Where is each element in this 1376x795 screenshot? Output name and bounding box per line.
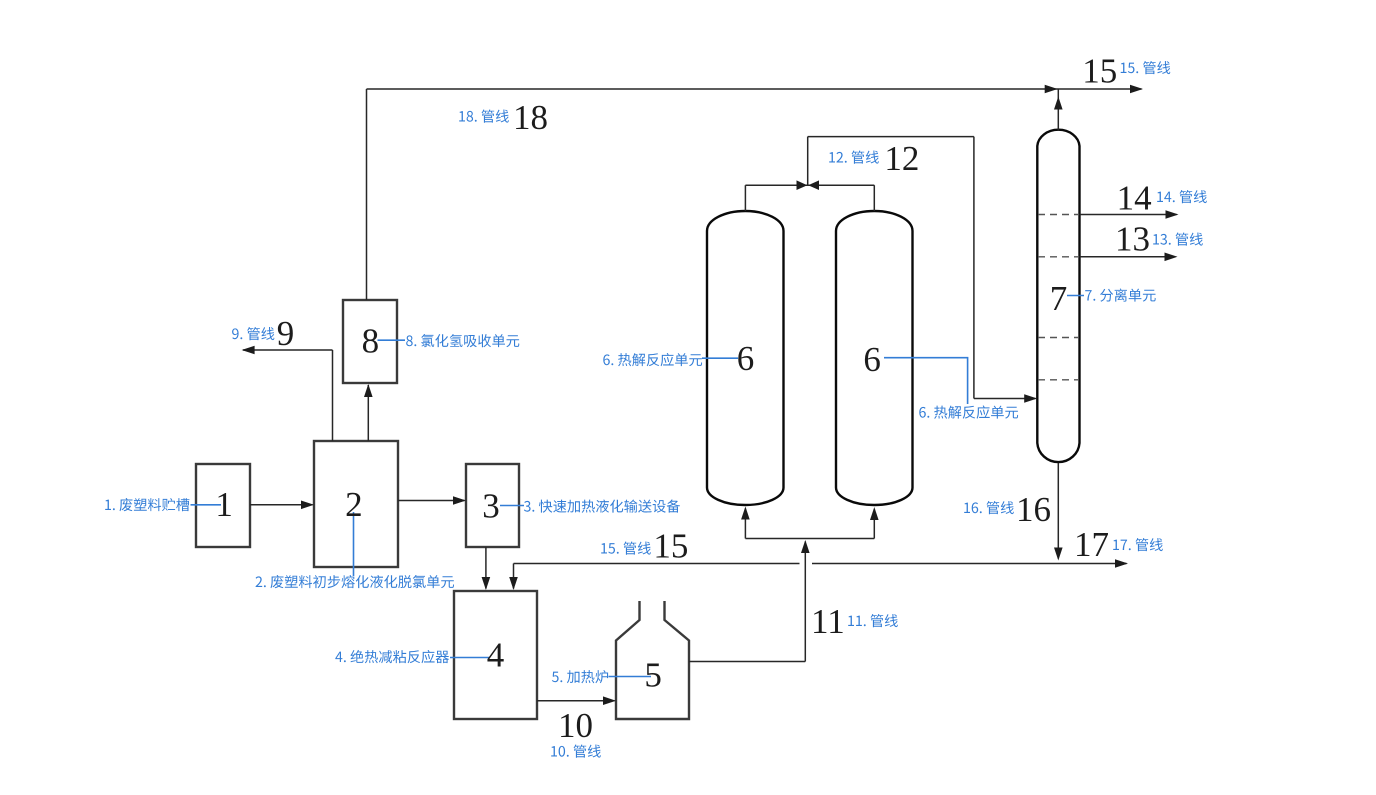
unit 6 pyrolysis column A bbox=[707, 211, 784, 505]
pipeline 11 horizontal from furnace bbox=[689, 661, 805, 663]
column feed header bbox=[745, 538, 874, 540]
pipeline 13 arrow bbox=[1165, 253, 1178, 262]
separation column internal dashed tray 2 bbox=[1038, 256, 1079, 258]
svg-text:6: 6 bbox=[737, 339, 755, 378]
svg-text:15: 15 bbox=[653, 527, 688, 566]
label: label pipeline 15 mid bbox=[601, 542, 651, 555]
pipeline unit 2 to unit 3 bbox=[398, 500, 465, 502]
column A feed riser bbox=[744, 509, 746, 539]
pipeline 12 top run bbox=[808, 136, 974, 138]
svg-text:1: 1 bbox=[215, 485, 233, 524]
label: label 7 separation unit bbox=[1085, 289, 1156, 302]
pipeline 15/17 long header left bbox=[514, 563, 800, 565]
pipeline 15 return drop to unit 4 bbox=[513, 564, 515, 589]
svg-text:3: 3 bbox=[482, 487, 500, 526]
separation column internal dashed tray 1 bbox=[1038, 214, 1079, 216]
label: label 5 heating furnace bbox=[552, 670, 608, 683]
pipeline 13 bbox=[1080, 256, 1176, 258]
svg-text:9: 9 bbox=[277, 314, 295, 353]
label: label pipeline 12 bbox=[829, 151, 879, 164]
unit 8 HCl absorption box bbox=[343, 300, 397, 383]
label: label 6 pyrolysis unit A bbox=[603, 353, 702, 366]
unit 3 inlet arrow bbox=[453, 496, 466, 505]
label: label pipeline 15 top bbox=[1121, 61, 1171, 74]
label: label pipeline 17 bbox=[1113, 538, 1163, 551]
label: label 3 transfer equipment bbox=[524, 500, 680, 513]
svg-text:12: 12 bbox=[884, 139, 919, 178]
column A inlet arrow bbox=[741, 507, 750, 520]
pipeline 10 unit 4 to furnace bbox=[537, 700, 615, 702]
svg-text:6: 6 bbox=[863, 340, 881, 379]
label: label 2 dechlorination unit bbox=[256, 575, 454, 588]
separation column side inlet arrow bbox=[1024, 394, 1037, 403]
label: label 6 pyrolysis unit B bbox=[919, 406, 1018, 419]
pipeline 12 crossover header bbox=[745, 184, 874, 186]
label: label pipeline 11 bbox=[848, 614, 898, 627]
unit 5 heating furnace outline bbox=[616, 601, 689, 719]
pipeline 9 horizontal bbox=[243, 349, 333, 351]
unit 6 pyrolysis column B bbox=[836, 211, 913, 505]
leader line unit 7 bbox=[1067, 295, 1084, 297]
pipeline 14 arrow bbox=[1166, 210, 1179, 219]
svg-text:18: 18 bbox=[513, 98, 548, 137]
svg-text:7: 7 bbox=[1050, 279, 1068, 318]
pipeline 15 outlet arrow bbox=[1130, 85, 1143, 94]
unit 3 rapid heating transfer box bbox=[466, 464, 519, 547]
label: label pipeline 10 bbox=[551, 745, 601, 758]
pipeline unit 2 to unit 8 bbox=[367, 385, 369, 441]
unit 7 separation column bbox=[1037, 130, 1079, 462]
unit 4 adiabatic visbreaking reactor box bbox=[454, 591, 537, 719]
svg-text:2: 2 bbox=[345, 485, 363, 524]
svg-text:14: 14 bbox=[1117, 179, 1152, 218]
svg-text:16: 16 bbox=[1016, 490, 1051, 529]
separation column internal dashed tray 3 bbox=[1038, 337, 1079, 339]
separation column top arrow bbox=[1054, 97, 1063, 110]
label: label 1 storage tank bbox=[105, 498, 189, 511]
pipeline 18 / 15 top header bbox=[367, 88, 1142, 90]
leader line unit 2 bbox=[353, 512, 355, 576]
pipeline 17 outlet arrow bbox=[1115, 559, 1128, 568]
leader line unit 5 bbox=[609, 676, 652, 678]
svg-text:15: 15 bbox=[1082, 52, 1117, 91]
leader line unit 8 bbox=[378, 339, 406, 341]
unit 4 inlet arrow B bbox=[509, 577, 518, 590]
pipeline 11 arrow bbox=[801, 540, 810, 553]
pipeline 16 arrow bbox=[1054, 548, 1063, 561]
unit 2 inlet arrow bbox=[301, 501, 314, 510]
pipeline 12 into separation column bbox=[974, 398, 1036, 400]
pipeline 16 from separation column bottom bbox=[1057, 463, 1059, 559]
pipeline 12 down run bbox=[973, 137, 975, 399]
pipeline 12 column B top stub bbox=[873, 185, 875, 211]
pipeline 12 column A top stub bbox=[744, 185, 746, 211]
leader line unit 3 bbox=[500, 505, 524, 507]
separation column internal dashed tray 4 bbox=[1038, 379, 1079, 381]
svg-text:4: 4 bbox=[487, 636, 505, 675]
label: label pipeline 16 bbox=[964, 501, 1014, 514]
furnace inlet arrow bbox=[603, 696, 616, 705]
svg-text:11: 11 bbox=[811, 602, 845, 641]
leader line unit 6B bbox=[884, 358, 968, 404]
pipeline 9 riser to unit 2 bbox=[332, 350, 334, 441]
svg-text:10: 10 bbox=[558, 706, 593, 745]
unit 2 melting/dechlorination box bbox=[314, 441, 398, 567]
pipeline 12 riser bbox=[807, 137, 809, 186]
column B inlet arrow bbox=[870, 507, 879, 520]
unit 8 inlet arrow bbox=[364, 384, 373, 397]
leader line unit 1 bbox=[191, 504, 222, 506]
column B feed riser bbox=[873, 509, 875, 539]
label: label pipeline 13 bbox=[1153, 233, 1203, 246]
label: label pipeline 9 bbox=[232, 327, 274, 340]
pipeline unit 3 to unit 4 bbox=[485, 547, 487, 589]
pipeline from separation column top bbox=[1057, 90, 1059, 131]
pipeline 11 riser bbox=[804, 542, 806, 662]
pipeline 12 valve bbox=[797, 180, 808, 190]
pipeline 9 arrow bbox=[242, 346, 255, 355]
unit 4 inlet arrow A bbox=[482, 577, 491, 590]
label: label pipeline 14 bbox=[1157, 190, 1207, 203]
pipeline 18 junction arrow bbox=[1045, 85, 1058, 94]
pipeline 18 riser from unit 8 top bbox=[366, 89, 368, 300]
label: label pipeline 18 bbox=[459, 110, 509, 123]
svg-text:13: 13 bbox=[1115, 220, 1150, 259]
leader line unit 6A bbox=[702, 357, 738, 359]
label: label 4 visbreaking reactor bbox=[335, 650, 449, 663]
leader line unit 4 bbox=[450, 657, 489, 659]
svg-text:17: 17 bbox=[1074, 525, 1109, 564]
pipeline unit 1 to unit 2 bbox=[250, 504, 313, 506]
unit 1 waste-plastic storage tank box bbox=[196, 464, 250, 547]
label: label 8 HCl absorption unit bbox=[406, 334, 519, 347]
pipeline 15/17 long header right bbox=[812, 563, 1127, 565]
svg-text:8: 8 bbox=[362, 322, 380, 361]
svg-text:5: 5 bbox=[644, 656, 662, 695]
pipeline 14 bbox=[1080, 214, 1177, 216]
